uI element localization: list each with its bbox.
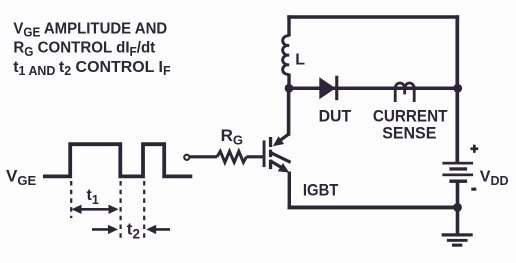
svg-text:SENSE: SENSE [382,123,436,142]
wire emitter [288,172,291,210]
diode DUT [319,76,338,101]
wire right vertical [455,15,459,162]
input terminal circle [184,155,189,160]
svg-text:IGBT: IGBT [303,180,339,199]
wire top [287,15,459,18]
wire inductor top [287,15,290,36]
svg-text:VGE: VGE [6,166,36,188]
resistor RG [217,151,246,162]
t2 arrow left [92,225,118,234]
wire bottom [288,205,458,209]
transistor IGBT [263,134,291,172]
dashed line t2 right [143,181,145,240]
t2 arrow right [146,225,170,234]
battery VDD [442,162,473,183]
junction node B [453,84,462,93]
dashed line t1 left [70,181,72,218]
svg-text:DUT: DUT [319,106,352,125]
svg-text:VGE AMPLITUDE AND: VGE AMPLITUDE AND [13,20,167,40]
label + [470,145,478,153]
wire inductor bottom [287,74,290,89]
dashed line t1 right / t2 left [119,181,121,240]
svg-text:t2: t2 [127,219,140,241]
ground [442,233,473,246]
wire VGE waveform pulse train [43,144,192,176]
svg-text:L: L [295,52,305,69]
wire battery to ground [456,183,460,235]
svg-text:RG CONTROL dIF/dt: RG CONTROL dIF/dt [13,39,155,59]
wire resistor to gate [246,155,263,158]
wire terminal to resistor [190,155,217,158]
current sense pickup [395,83,414,102]
label - [471,188,476,191]
svg-text:VDD: VDD [480,169,509,188]
wire diode branch [289,87,458,91]
junction node C [453,203,462,212]
svg-text:t1: t1 [87,187,99,207]
t1 dimension arrow [72,205,119,214]
inductor L [283,36,289,75]
wire collector [287,86,291,136]
svg-text:t1 AND t2 CONTROL IF: t1 AND t2 CONTROL IF [13,59,171,78]
junction node A [285,84,294,93]
svg-text:RG: RG [221,126,243,147]
